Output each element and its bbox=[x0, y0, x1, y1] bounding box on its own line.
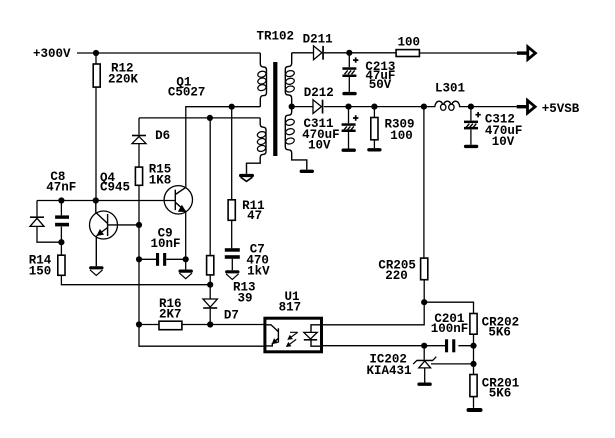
wire R16 row bbox=[139, 324, 265, 326]
junction IC202 ref/CR201 bbox=[470, 361, 476, 367]
resistor R16 bbox=[159, 321, 182, 330]
resistor R309 bbox=[371, 107, 378, 149]
junction D212/R309 bbox=[371, 104, 377, 110]
capacitor C7 bbox=[225, 248, 240, 270]
ground R309 bbox=[367, 148, 381, 151]
wire +300V rail bbox=[77, 52, 260, 54]
svg-text:150: 150 bbox=[29, 265, 52, 279]
capacitor C8 bbox=[55, 201, 69, 243]
ground C312 bbox=[464, 145, 478, 148]
junction Q1 emitter/C9 bbox=[183, 256, 189, 262]
capacitor C312 bbox=[464, 107, 481, 145]
svg-text:5K6: 5K6 bbox=[489, 387, 512, 401]
label R13 39 bbox=[233, 281, 256, 306]
label C8 47nF bbox=[46, 170, 76, 194]
label IC202 KIA431 bbox=[367, 352, 412, 378]
label R15 1K8 bbox=[149, 163, 172, 188]
label C7 470 1kV bbox=[246, 243, 270, 279]
node +5VSB bbox=[542, 102, 580, 116]
svg-text:5K6: 5K6 bbox=[488, 326, 511, 340]
inductor L301 bbox=[435, 101, 460, 110]
junction CR205/U1/CR202 bbox=[421, 299, 427, 305]
label R309 100 bbox=[385, 118, 415, 143]
wire CR205 to CR202 bbox=[424, 302, 473, 313]
junction TR102 secondary center tap bbox=[289, 104, 295, 110]
label L301 bbox=[435, 82, 465, 96]
diode D211 bbox=[314, 46, 324, 60]
label R16 2K7 bbox=[159, 297, 182, 322]
label C9 10nF bbox=[151, 226, 181, 251]
svg-text:1K8: 1K8 bbox=[149, 174, 172, 188]
junction L301/C312 bbox=[468, 104, 474, 110]
ground Q4 emitter bbox=[89, 266, 103, 275]
wire D211 row bbox=[292, 52, 396, 54]
resistor CR202 bbox=[470, 314, 477, 364]
svg-text:220K: 220K bbox=[108, 72, 139, 86]
resistor CR201 bbox=[470, 364, 477, 408]
junction D6-wire/R13 bbox=[207, 115, 213, 121]
svg-text:C5027: C5027 bbox=[168, 85, 206, 99]
output arrow top bbox=[517, 47, 535, 60]
optocoupler U1 bbox=[265, 318, 322, 352]
label Q4 C945 bbox=[100, 171, 130, 195]
transformer TR102 core bbox=[273, 62, 277, 156]
svg-text:D7: D7 bbox=[224, 309, 239, 323]
ground C7 bbox=[225, 270, 239, 279]
ground Q1 emitter bbox=[179, 270, 193, 279]
svg-text:+300V: +300V bbox=[33, 47, 71, 61]
label D7 bbox=[224, 309, 239, 323]
svg-text:100: 100 bbox=[398, 35, 421, 49]
wire D6 to TR102 primary bottom bbox=[139, 117, 260, 119]
label TR102 bbox=[257, 30, 295, 44]
ground TR102 primary lower bbox=[239, 174, 254, 182]
transformer TR102 secondary upper winding bbox=[285, 53, 295, 107]
wire D6 feed bbox=[138, 118, 140, 135]
label CR202 5K6 bbox=[482, 315, 520, 339]
junction D212/C311 bbox=[345, 104, 351, 110]
transformer TR102 secondary lower winding bbox=[285, 107, 307, 170]
svg-text:C945: C945 bbox=[100, 180, 130, 194]
svg-text:+5VSB: +5VSB bbox=[542, 102, 580, 116]
svg-text:D6: D6 bbox=[155, 129, 170, 143]
junction R15-line/Q4 base bbox=[136, 222, 142, 228]
resistor 100 (top) bbox=[396, 50, 517, 57]
resistor R14 bbox=[58, 242, 210, 285]
wire Q1 emitter bbox=[185, 212, 187, 270]
svg-text:47: 47 bbox=[247, 209, 262, 223]
junction base-line/R12/Q4 bbox=[93, 197, 99, 203]
label U1 817 bbox=[279, 290, 302, 315]
ground IC202 bbox=[417, 383, 431, 386]
output arrow +5VSB bbox=[517, 100, 535, 113]
junction U1/C201/IC202 bbox=[421, 343, 427, 349]
svg-text:10nF: 10nF bbox=[151, 237, 181, 251]
diode D7 bbox=[203, 299, 217, 325]
svg-text:47nF: 47nF bbox=[46, 180, 76, 194]
svg-text:10V: 10V bbox=[492, 135, 515, 149]
ground CR201 bbox=[467, 408, 483, 412]
junction collector-wire/R11 bbox=[229, 104, 235, 110]
ground C311 bbox=[342, 149, 356, 152]
junction rail/R12 bbox=[93, 50, 99, 56]
svg-text:220: 220 bbox=[385, 269, 408, 283]
capacitor C311 bbox=[342, 107, 359, 149]
diode D5 left clamp bbox=[30, 201, 61, 243]
transformer TR102 primary lower winding bbox=[247, 118, 267, 174]
svg-text:100: 100 bbox=[390, 129, 413, 143]
ground TR102 secondary lower bbox=[300, 170, 314, 173]
wire U1 emitter row bbox=[323, 345, 474, 347]
node +300V bbox=[33, 47, 71, 61]
label D6 bbox=[155, 129, 170, 143]
ground C213 bbox=[342, 92, 356, 95]
svg-text:TR102: TR102 bbox=[257, 30, 295, 44]
svg-text:KIA431: KIA431 bbox=[367, 364, 412, 378]
diode D6 bbox=[132, 135, 146, 167]
junction R13/R14/D7 bbox=[207, 282, 213, 288]
svg-text:39: 39 bbox=[238, 291, 253, 305]
junction D7/R16 bbox=[207, 321, 213, 327]
svg-text:50V: 50V bbox=[369, 78, 392, 92]
shunt regulator IC202 bbox=[413, 346, 473, 383]
svg-text:L301: L301 bbox=[435, 82, 465, 96]
capacitor C201 bbox=[445, 339, 455, 352]
resistor R15 bbox=[135, 167, 264, 346]
label C213 47uF 50V bbox=[365, 60, 395, 92]
svg-text:100nF: 100nF bbox=[431, 322, 469, 336]
label R12 220K bbox=[108, 62, 139, 87]
resistor R11 bbox=[228, 107, 235, 249]
resistor R13 bbox=[207, 118, 214, 299]
label C201 100nF bbox=[431, 312, 469, 336]
junction D212/CR205 bbox=[421, 104, 427, 110]
label C312 470uF 10V bbox=[485, 113, 523, 149]
label D212 bbox=[304, 86, 334, 100]
wire Q1 collector to TR102 primary bbox=[186, 107, 260, 188]
svg-text:1kV: 1kV bbox=[247, 264, 270, 278]
diode D212 bbox=[313, 100, 323, 114]
svg-text:D211: D211 bbox=[303, 33, 333, 47]
capacitor C213 bbox=[342, 53, 358, 92]
junction D211/C213 bbox=[346, 50, 352, 56]
label R11 47 bbox=[242, 199, 265, 223]
label CR205 220 bbox=[378, 259, 416, 284]
junction C8/R14 bbox=[58, 239, 64, 245]
label Q1 C5027 bbox=[168, 75, 206, 99]
wire U1 collector to CR205 bbox=[323, 302, 424, 325]
svg-text:D212: D212 bbox=[304, 86, 334, 100]
wire D212 row bbox=[292, 106, 517, 108]
label D211 bbox=[303, 33, 333, 47]
transformer TR102 primary upper winding bbox=[257, 53, 267, 107]
transistor Q4 bbox=[90, 201, 140, 267]
capacitor C9 bbox=[139, 253, 186, 266]
resistor CR205 bbox=[421, 107, 428, 303]
label 100 bbox=[398, 35, 421, 49]
label R14 150 bbox=[29, 254, 52, 279]
svg-text:10V: 10V bbox=[308, 139, 331, 153]
svg-text:817: 817 bbox=[279, 301, 302, 315]
resistor R12 bbox=[93, 53, 100, 201]
svg-text:2K7: 2K7 bbox=[159, 308, 182, 322]
junction C201/CR202 bbox=[470, 343, 476, 349]
junction R15-line/C9 bbox=[136, 256, 142, 262]
junction R15-line/R16 bbox=[136, 321, 142, 327]
label CR201 5K6 bbox=[482, 377, 520, 401]
junction base-line/C8 bbox=[58, 197, 64, 203]
label C311 470uF 10V bbox=[302, 117, 340, 152]
transistor Q1 bbox=[164, 186, 192, 214]
wire Q1 base line bbox=[37, 200, 175, 202]
